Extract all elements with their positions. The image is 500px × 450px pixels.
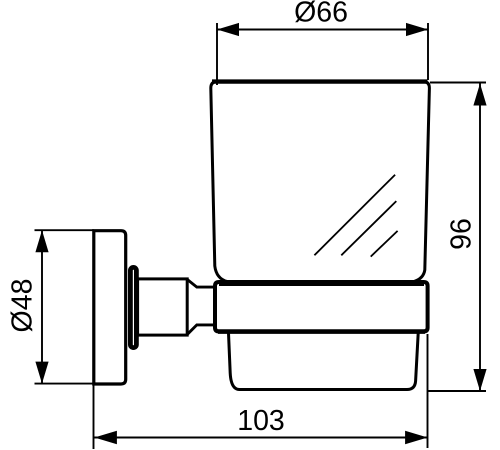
dimension 103 arrow right [405, 431, 428, 445]
dimension 96 label [446, 218, 478, 250]
dimension 103 arrow left [94, 431, 117, 445]
stem cylinder [138, 279, 188, 335]
dimension Ø48 arrow bottom [35, 362, 48, 384]
dimension 96 arrow bottom [473, 369, 486, 391]
glass reflection hatching [314, 175, 397, 257]
dimension Ø48 arrow top [35, 230, 48, 252]
dimension Ø66 arrow right [406, 23, 428, 36]
dimension 96 extension line top [430, 82, 486, 84]
svg-text:96: 96 [446, 218, 478, 250]
dimension 96 extension line bottom [428, 390, 486, 392]
dimension Ø48 line [41, 230, 43, 383]
dimension Ø66 label [294, 0, 348, 29]
dimension 96 arrow top [473, 84, 486, 106]
wall plate (mounting rosette, side view) [94, 231, 126, 384]
dimension Ø66 arrow left [217, 23, 239, 36]
dimension Ø48 extension line top [35, 229, 94, 231]
stem taper and neck [187, 279, 215, 334]
holder ring plate [215, 282, 428, 332]
dimension 103 extension line right [427, 334, 429, 448]
dimension Ø66 line [217, 29, 428, 31]
dimension 96 line [479, 84, 481, 392]
glass tumbler upper body [211, 82, 430, 282]
svg-text:Ø66: Ø66 [294, 0, 348, 29]
dimension Ø66 extension line left [216, 23, 218, 85]
svg-text:103: 103 [237, 405, 285, 437]
dimension 103 line [94, 437, 428, 439]
svg-text:Ø48: Ø48 [7, 279, 39, 333]
flange collar on stem [130, 267, 136, 347]
dimension Ø48 extension line bottom [35, 383, 94, 385]
dimension Ø66 extension line right [427, 23, 429, 80]
glass tumbler lower body [229, 333, 419, 390]
dimension Ø48 label [7, 279, 39, 333]
dimension 103 extension line left [93, 385, 95, 449]
dimension 103 label [237, 405, 285, 437]
